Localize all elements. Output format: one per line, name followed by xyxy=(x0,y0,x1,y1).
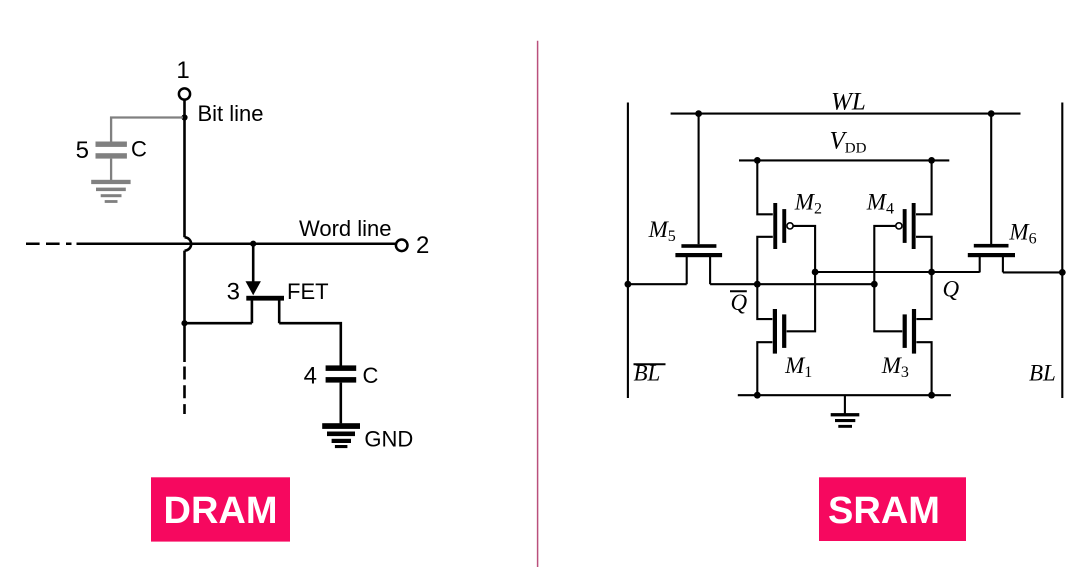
wire: Q wire to M6 source xyxy=(932,271,980,273)
wire: M5 drain to Q-bar node and M4/M3 gates xyxy=(710,283,874,285)
svg-text:1: 1 xyxy=(176,57,189,84)
wire: word line xyxy=(77,242,396,245)
transistor M1 source lead xyxy=(757,342,772,395)
transistor M6 gate bar xyxy=(974,244,1009,248)
transistor M3 drain lead xyxy=(916,272,931,319)
capacitor C5 top plate xyxy=(96,142,127,147)
svg-text:Bit line: Bit line xyxy=(198,101,264,126)
transistor Q-FET drain lead (right) xyxy=(278,300,281,323)
svg-text:C: C xyxy=(131,137,147,162)
transistor M6 drain lead xyxy=(1002,257,1004,272)
junction: bit line / FET source xyxy=(181,320,187,326)
junction: Q-bar / M4-M3 gate column xyxy=(871,281,878,288)
svg-text:DRAM: DRAM xyxy=(164,490,278,532)
transistor M3 source lead xyxy=(916,342,931,395)
junction: VDD / M4 source xyxy=(928,157,935,164)
transistor M6 gate lead xyxy=(990,114,992,245)
svg-text:3: 3 xyxy=(227,278,240,305)
wire: bit line vertical lower segment xyxy=(183,251,186,362)
junction: BL / Q wire xyxy=(1059,269,1066,276)
transistor M1 drain lead xyxy=(757,284,772,319)
wire: word line dashed continuation (left) xyxy=(26,242,72,245)
wire: word line WL xyxy=(671,113,1021,115)
wire: bit line to FET source xyxy=(185,322,252,325)
transistor Q-FET source lead (left) xyxy=(251,300,254,323)
capacitor C5 bottom plate xyxy=(96,153,127,158)
junction: M1 source / ground rail xyxy=(754,392,761,399)
wire: bit line vertical upper segment xyxy=(183,100,186,238)
transistor M5 gate lead xyxy=(698,114,700,245)
wire: M4 gate to Q-bar column xyxy=(874,226,895,284)
wire: BL-bar to M5 source xyxy=(628,283,687,285)
junction: M3 source / ground rail xyxy=(928,392,935,399)
transistor M3 gate bar xyxy=(903,314,907,348)
transistor M6 channel bar xyxy=(968,253,1015,257)
transistor Q-FET channel bar xyxy=(246,296,284,301)
junction: word line / FET gate xyxy=(250,241,256,247)
transistor M2 gate bar xyxy=(782,209,786,243)
wire: ground rail xyxy=(738,394,951,396)
wire: M2 gate to cross-coupling column xyxy=(794,226,816,272)
DRAM caption box xyxy=(151,477,290,541)
wire: capacitor 5 to gray ground xyxy=(110,159,112,180)
transistor M5 source lead xyxy=(686,257,688,284)
node 1 terminal (open circle) xyxy=(179,88,190,99)
transistor M4 gate bar xyxy=(903,209,907,243)
wire: bit line hop over word line xyxy=(185,237,192,250)
svg-text:C: C xyxy=(363,363,379,388)
svg-text:GND: GND xyxy=(364,426,413,451)
svg-text:SRAM: SRAM xyxy=(828,490,940,532)
svg-text:4: 4 xyxy=(304,362,317,389)
transistor M4 channel bar xyxy=(912,203,916,249)
junction: M1/M2 gate column / Q wire xyxy=(812,269,819,276)
transistor M1 channel bar xyxy=(773,309,777,354)
svg-text:Word line: Word line xyxy=(299,216,392,241)
transistor M2 channel bar xyxy=(773,203,777,249)
junction: Q wire / M3-M4 drain column xyxy=(928,269,935,276)
svg-text:Q: Q xyxy=(943,276,960,301)
transistor M2 drain lead xyxy=(757,237,773,284)
wire: M3 gate to Q-bar column xyxy=(874,284,902,331)
divider line xyxy=(537,41,539,567)
transistor M4 gate bubble (PMOS) xyxy=(896,223,902,229)
node 2 terminal (open circle) xyxy=(396,240,408,252)
svg-text:FET: FET xyxy=(287,279,329,304)
transistor M4 drain lead xyxy=(916,237,932,272)
junction: bit line / capacitor 5 tap xyxy=(181,114,187,120)
SRAM caption box xyxy=(819,477,966,541)
svg-text:5: 5 xyxy=(76,137,89,164)
wire: M1 gate to cross-coupling column xyxy=(787,272,816,331)
junction: WL / M6 gate xyxy=(988,110,995,117)
wire: capacitor 4 to ground xyxy=(339,383,342,424)
svg-text:BL: BL xyxy=(634,360,661,385)
capacitor C4 top plate xyxy=(326,365,357,371)
svg-text:2: 2 xyxy=(416,232,429,259)
transistor M2 source lead xyxy=(757,160,773,214)
svg-text:WL: WL xyxy=(831,89,866,116)
wire: cross-coupling Q wire (gates of M1/M2 to drain column of M3/M4) xyxy=(815,271,932,273)
wire: M6 drain to BL xyxy=(1003,271,1062,273)
transistor M5 gate bar xyxy=(681,244,716,248)
wire: bit line BL-bar vertical (left) xyxy=(627,103,629,399)
wire: VDD rail xyxy=(739,159,949,161)
ground (SRAM cell) xyxy=(831,395,860,428)
transistor M6 source lead xyxy=(979,257,981,272)
junction: BL-bar / Q-bar wire xyxy=(625,281,632,288)
capacitor C4 bottom plate xyxy=(326,377,357,383)
svg-text:BL: BL xyxy=(1029,360,1056,385)
label Q-bar xyxy=(730,290,748,315)
transistor M1 gate bar xyxy=(782,314,786,348)
wire: bit line BL vertical (right) xyxy=(1061,103,1063,399)
transistor M3 channel bar xyxy=(912,309,916,354)
transistor M2 gate bubble (PMOS) xyxy=(787,223,793,229)
wire: bit line dashed continuation (bottom) xyxy=(183,367,186,415)
junction: VDD / M2 source xyxy=(754,157,761,164)
junction: WL / M5 gate xyxy=(695,110,702,117)
transistor M5 channel bar xyxy=(675,253,722,257)
transistor M5 drain lead xyxy=(709,257,711,284)
wire: gray tap to capacitor 5 xyxy=(111,118,183,142)
svg-text:Q: Q xyxy=(731,290,748,315)
ground (gray, bit line reference) xyxy=(91,180,130,203)
wire: FET drain to capacitor 4 xyxy=(279,323,341,365)
transistor Q-FET gate lead with arrow xyxy=(246,245,261,295)
label BL-bar xyxy=(634,360,666,385)
ground GND (storage capacitor) xyxy=(322,423,360,448)
transistor M4 source lead xyxy=(916,160,932,214)
junction: Q-bar node xyxy=(754,281,761,288)
